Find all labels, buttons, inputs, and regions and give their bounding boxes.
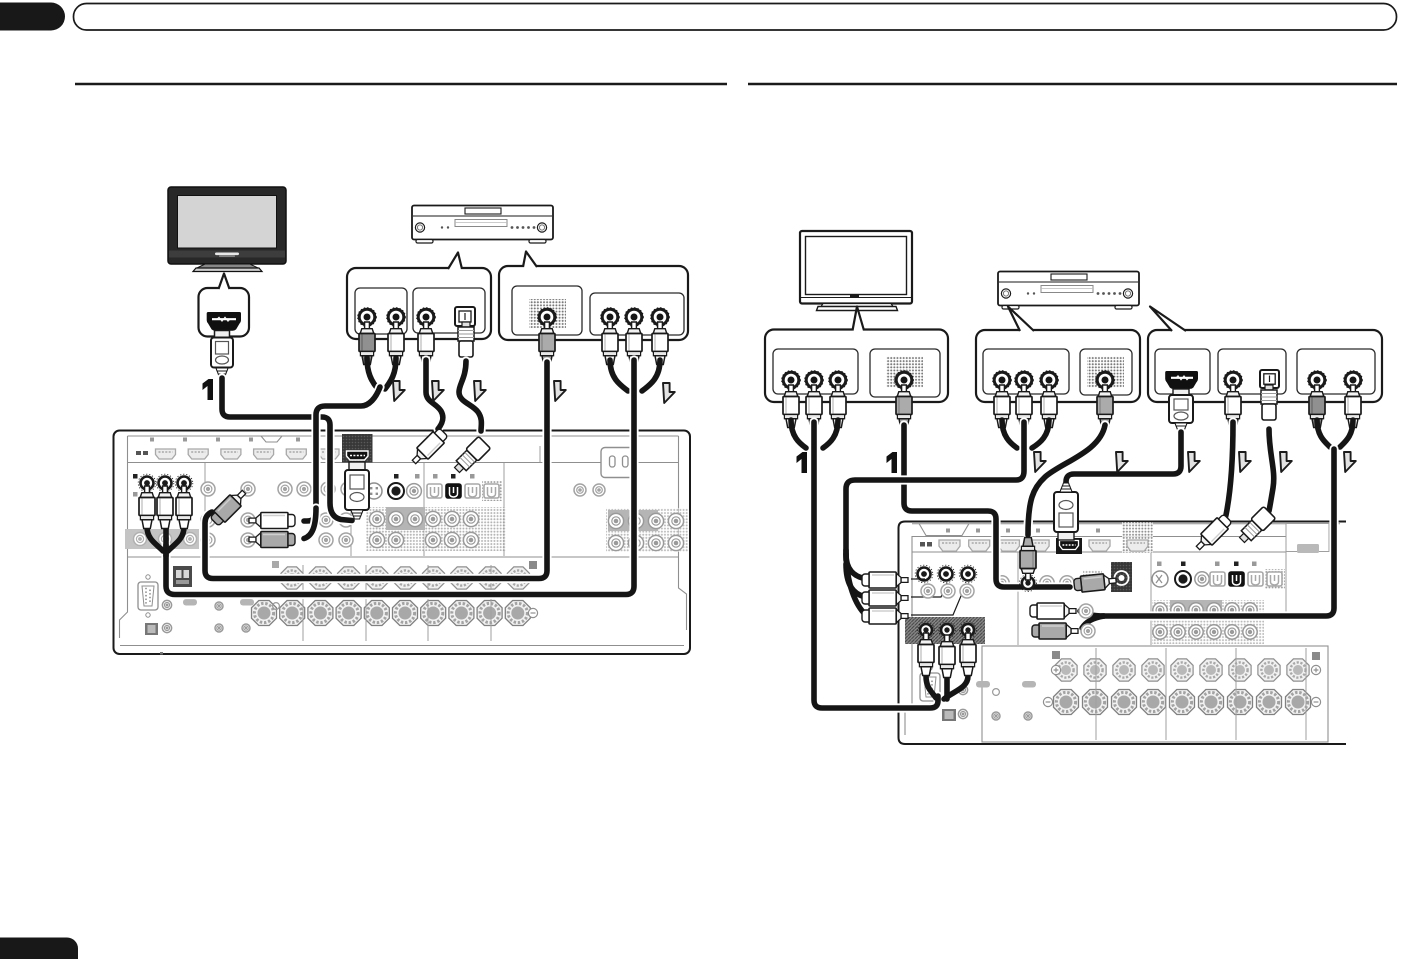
- DVD subwoofer-style jack (right): [1096, 371, 1115, 390]
- TV subwoofer jack: [895, 371, 914, 390]
- COAXIAL digital input (dark jack, right panel): [1175, 571, 1191, 587]
- audio L plug (right bubble, dark): [1309, 385, 1325, 428]
- stereo audio cable (R): [385, 358, 396, 389]
- HDMI plug into receiver (right, down): [1054, 483, 1078, 540]
- connector frame (sub out): [1080, 349, 1132, 395]
- speaker terminals lower row (right panel): [1043, 648, 1320, 740]
- connector frame (subwoofer out): [512, 286, 582, 335]
- COMPONENT Pb jack: [625, 308, 644, 327]
- multichannel input block (dotted): [366, 507, 506, 551]
- aux small jacks (bottom-left): [145, 599, 279, 655]
- audio R plug into receiver (gray): [1032, 623, 1078, 639]
- connector frame (analog audio right): [1297, 349, 1375, 394]
- coaxial plug angled (right): [1192, 513, 1233, 554]
- monitor out plug Y: [139, 486, 155, 529]
- shaded monitor-out strip: [125, 529, 199, 549]
- speaker terminals upper row (left panel): [272, 561, 537, 589]
- audio L plug (dark) on DVD audio out: [359, 322, 375, 365]
- connection arrow (hdmi, right): [1188, 452, 1200, 472]
- connection arrow (optical, right): [1280, 452, 1292, 472]
- component Pr plug (right): [1041, 385, 1057, 428]
- audio input jacks (right panel): [1079, 604, 1095, 638]
- COMPONENT Y jack: [601, 308, 620, 327]
- monitor out plug tails: [147, 527, 184, 556]
- OPTICAL inputs (right panel, one highlighted): [1210, 569, 1285, 589]
- S-video jack (left panel): [366, 483, 382, 499]
- TV video plugs into receiver (3x vertical): [918, 633, 976, 678]
- AV receiver rear panel (left diagram): [114, 431, 691, 655]
- callout bubble: DVD subwoofer + component outputs: [499, 252, 688, 341]
- optical digital cable: [459, 361, 481, 431]
- TV video plug 1: [783, 385, 799, 428]
- connector frame (TV subwoofer): [870, 349, 940, 397]
- optical plug (right bubble): [1261, 385, 1277, 420]
- TV video jack 3: [829, 371, 848, 390]
- DVD sub input jack (right panel): [1020, 575, 1037, 592]
- audio L plug into receiver (white): [1030, 603, 1076, 619]
- callout bubble: DVD audio/digital outputs: [347, 253, 491, 340]
- HDMI input ports row (right panel): [920, 529, 1319, 554]
- spare coax jack (right): [1195, 572, 1209, 586]
- audio pair cable branches (right): [1317, 420, 1353, 447]
- RS-232C D-sub port: [138, 575, 158, 617]
- DVD sub halftone pad (right): [1087, 356, 1124, 388]
- connector frame (digital out right): [1218, 349, 1286, 394]
- component Y plug: [602, 322, 618, 365]
- spare coax jack: [407, 484, 422, 499]
- right column heading rule: [748, 83, 1397, 85]
- component plugs into receiver (3x horizontal): [862, 572, 908, 588]
- control IR block: [173, 566, 192, 587]
- connection arrow (audio): [393, 381, 405, 401]
- OPTICAL input ports (left panel, #2 highlighted): [427, 481, 502, 501]
- label squares (right panel digital row): [1157, 562, 1257, 567]
- component MONITOR jacks (right panel, highlighted): [915, 565, 977, 583]
- connector frame (component video out): [590, 293, 684, 335]
- component plug branch tails (right): [846, 550, 866, 615]
- TV video plug 3: [830, 385, 846, 428]
- TV subwoofer plug (gray): [896, 385, 912, 428]
- component Pr plug: [652, 322, 668, 365]
- speaker terminals lower row (left panel): [252, 565, 538, 641]
- assign jack rows (right panel): [1152, 600, 1264, 644]
- callout bubble: TV composite/component + subwoofer: [765, 307, 948, 403]
- sub plug into receiver (gray, vertical down): [1020, 538, 1036, 581]
- component Pb plug (right): [1016, 385, 1032, 428]
- optical plug angled into receiver: [451, 436, 491, 476]
- TV subwoofer halftone pad: [886, 356, 923, 388]
- audio R plug (right bubble, white): [1345, 385, 1361, 428]
- HDMI plug (DVD out, right): [1169, 389, 1193, 432]
- coaxial plug angled into receiver: [408, 427, 449, 468]
- COAXIAL digital out jack (DVD): [417, 308, 436, 327]
- component Y plug (right): [994, 385, 1010, 428]
- TV video jack 2: [805, 371, 824, 390]
- audio pair branch tails (right): [1080, 611, 1104, 628]
- input jack row (right panel mid): [995, 570, 1102, 590]
- SUBWOOFER input (dark block, right panel): [1111, 562, 1132, 592]
- subwoofer cable: [205, 362, 547, 579]
- audio L out jack (right bubble): [1308, 371, 1327, 390]
- connection arrow (coax, right): [1239, 452, 1251, 472]
- secondary jack row (right panel): [921, 584, 974, 598]
- component MONITOR OUT jacks (left panel, highlighted): [138, 474, 193, 492]
- TV video cable bundle (right): [814, 422, 938, 708]
- DVD component Y jack (right): [993, 371, 1012, 390]
- component video cable bundle (right): [846, 422, 1024, 560]
- step number 1 (HDMI connection): [203, 379, 214, 400]
- COAXIAL digital input jack (dark, left panel): [388, 483, 404, 499]
- connection arrow (component): [663, 383, 675, 403]
- DVD component Pr jack (right): [1040, 371, 1059, 390]
- COMPONENT Pr jack: [651, 308, 670, 327]
- subwoofer halftone pad: [529, 299, 566, 328]
- component video cable branches (right): [1002, 420, 1049, 448]
- callout bubble: DVD component outputs (right): [976, 307, 1140, 403]
- connector frame (TV video jacks): [773, 349, 858, 394]
- optical plug angled (right): [1236, 506, 1276, 546]
- HDMI cable TV-to-receiver: [222, 378, 352, 521]
- monitor out plug Pb: [157, 486, 173, 529]
- connector frame (digital out): [413, 288, 485, 333]
- spare HDMI block (gray, right panel): [1122, 522, 1153, 553]
- connection arrow (component, right): [1034, 452, 1046, 472]
- highlighted HDMI input (dark, right panel): [1056, 538, 1082, 554]
- connection arrow (optical): [474, 381, 486, 401]
- aux small jacks (right panel bottom-left): [942, 681, 1036, 721]
- DVD/Blu-ray player (right column): [998, 272, 1139, 310]
- audio L plug into receiver (white, horizontal): [249, 513, 295, 529]
- optical out port (right bubble): [1260, 370, 1279, 388]
- connector frame (HDMI out): [1155, 349, 1210, 394]
- subwoofer plug into receiver (gray, tilted): [1073, 573, 1116, 593]
- stereo audio cable (L): [367, 358, 378, 389]
- step number 1 (TV sub, right): [887, 452, 898, 473]
- AUDIO R jack (DVD): [387, 308, 406, 327]
- speaker terminals upper row (right panel): [1051, 651, 1320, 681]
- monitor out plug Pr: [176, 486, 192, 529]
- component Pb plug: [626, 322, 642, 365]
- A/V input jack grid rows (left panel): [201, 482, 688, 552]
- TV monitor (left, HDMI connection): [168, 187, 286, 272]
- TV monitor (right diagram, outline style): [800, 231, 912, 311]
- AV receiver rear panel (right diagram, right side cropped): [899, 522, 1347, 745]
- component video cable bundle: [166, 360, 634, 595]
- stereo audio cable bundle to receiver: [304, 387, 380, 539]
- left column heading rule: [75, 83, 727, 85]
- HDMI cable (DVD to receiver, right): [1066, 432, 1181, 492]
- page header tab (top-left black): [0, 3, 65, 31]
- connection arrow (coax): [432, 381, 444, 401]
- coaxial digital plug: [418, 322, 434, 365]
- connector frame (component): [983, 349, 1069, 394]
- highlighted HDMI-1 input (dark block): [342, 434, 373, 463]
- HDMI port symbol (TV bubble): [207, 312, 241, 331]
- HDMI plug into receiver HDMI-1: [345, 462, 369, 519]
- HDMI plug (to TV): [211, 331, 233, 378]
- TV video jack 1: [782, 371, 801, 390]
- subwoofer plug (gray): [539, 322, 555, 365]
- hatched audio-in band + jacks: [905, 617, 985, 644]
- connection arrow (subwoofer): [554, 381, 566, 401]
- coaxial cable (right): [1225, 422, 1233, 519]
- component video cable branches: [610, 360, 660, 391]
- coax plug (right bubble): [1225, 385, 1241, 428]
- coaxial digital cable: [426, 360, 443, 429]
- audio R plug into receiver (gray, horizontal): [249, 532, 295, 548]
- connection arrow (sub, right): [1116, 452, 1128, 472]
- subwoofer plug angled into receiver (gray): [209, 486, 250, 527]
- audio R plug (white): [388, 322, 404, 365]
- HDMI out port (DVD, right bubble): [1165, 371, 1198, 389]
- DVD component Pb jack (right): [1015, 371, 1034, 390]
- connector frame (analog audio): [355, 288, 407, 334]
- DVD sub cable to gray plug (right): [1028, 425, 1105, 535]
- DVD/Blu-ray player (left column): [412, 206, 553, 244]
- label squares row (left panel jacks): [133, 474, 475, 497]
- callout bubble: DVD HDMI/digital/audio outputs: [1148, 307, 1382, 403]
- TV subwoofer cable (right): [904, 425, 1070, 587]
- TV video plug 2: [806, 385, 822, 428]
- page header bar: [74, 4, 1397, 31]
- audio R out jack (right bubble): [1344, 371, 1363, 390]
- audio pair cable bundle (right): [1102, 449, 1334, 616]
- TV video cable branches (right): [791, 420, 838, 448]
- AC power inlet: [601, 448, 635, 478]
- OPTICAL digital out port (DVD): [455, 307, 475, 326]
- S-video jack (right panel): [1152, 571, 1168, 587]
- step number 1 (TV video, right): [797, 452, 808, 473]
- TV video plug tails into receiver: [926, 676, 968, 699]
- callout bubble: TV HDMI input: [199, 274, 250, 337]
- optical digital plug: [458, 322, 474, 357]
- connection arrow (audio, right): [1344, 452, 1356, 472]
- jack leader lines: [911, 579, 966, 615]
- HDMI input ports row (left panel): [136, 438, 339, 460]
- page footer tab (bottom-left black): [0, 938, 78, 959]
- RS-232C D-sub port (right panel): [920, 666, 940, 708]
- coaxial out jack (right bubble): [1224, 371, 1243, 390]
- AUDIO L jack (DVD): [358, 308, 377, 327]
- sub plug (right bubble, gray): [1097, 385, 1113, 428]
- optical cable (right): [1269, 429, 1274, 511]
- SUBWOOFER out jack (DVD bubble): [538, 308, 557, 327]
